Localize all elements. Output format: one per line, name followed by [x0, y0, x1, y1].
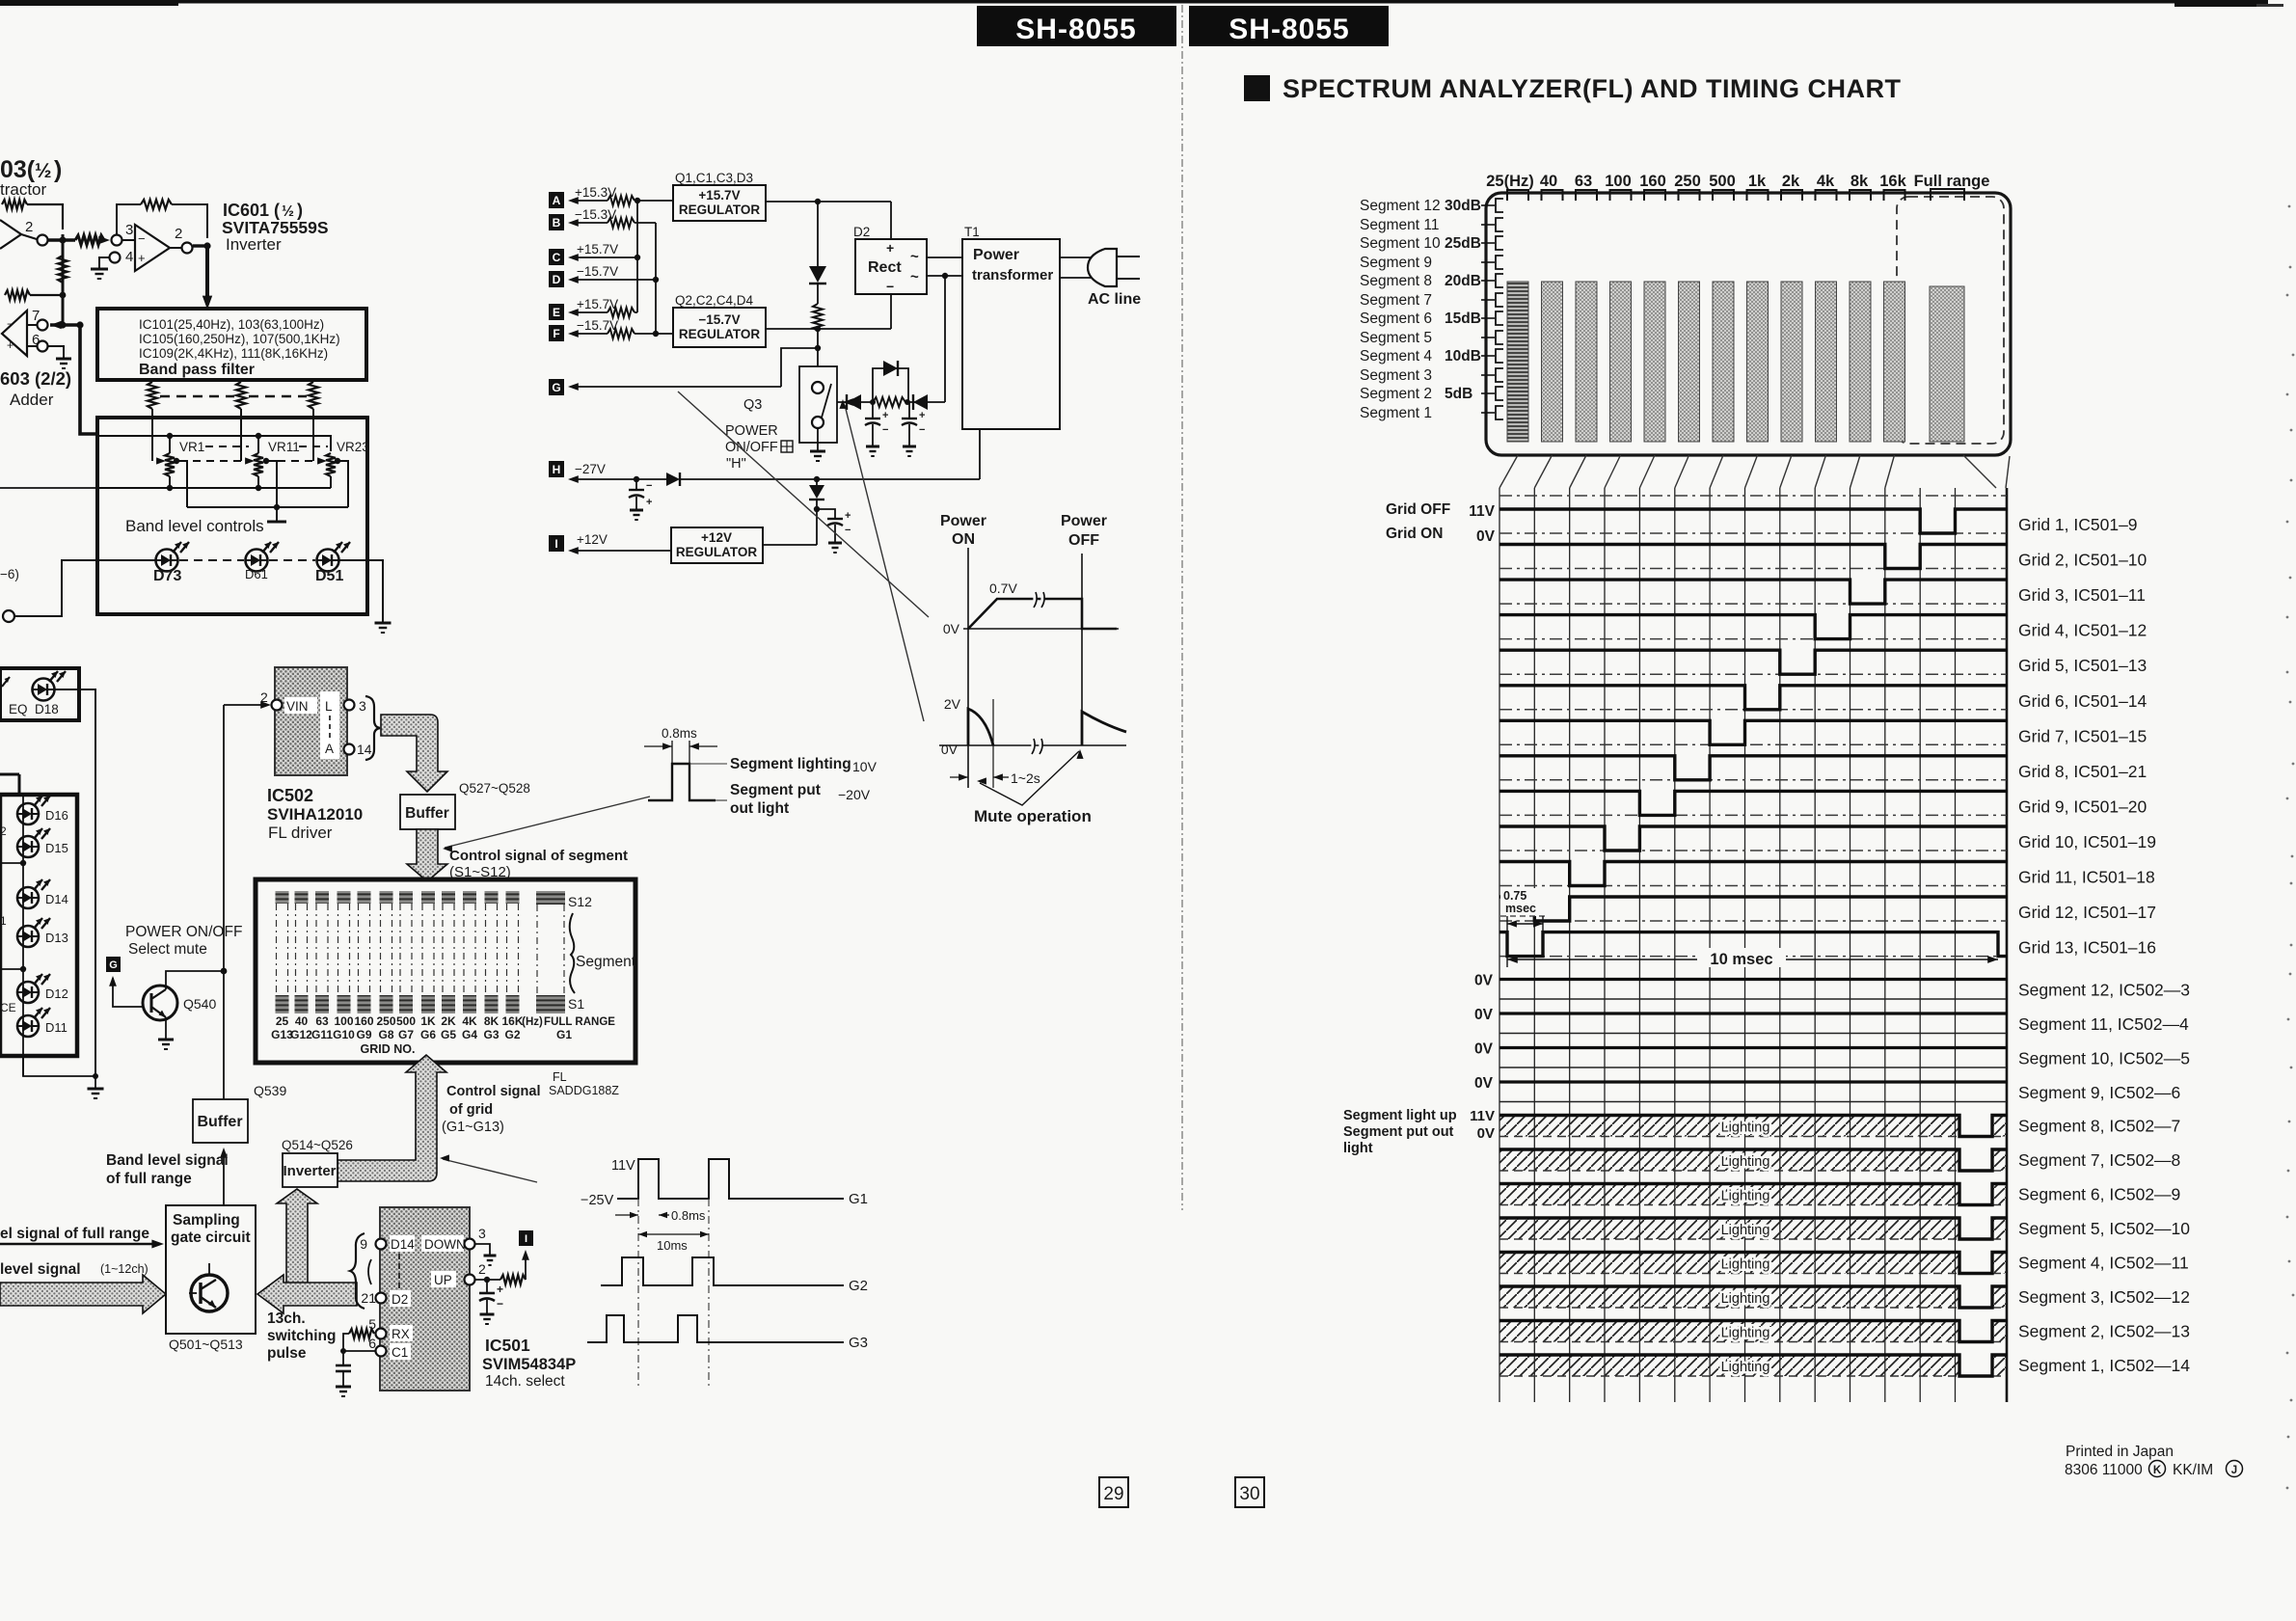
svg-text:−: − — [7, 317, 14, 331]
svg-text:Segment 9, IC502—6: Segment 9, IC502—6 — [2018, 1083, 2180, 1102]
svg-text:Q539: Q539 — [254, 1083, 286, 1098]
svg-text:2: 2 — [0, 824, 7, 838]
switch Q3 — [799, 366, 837, 443]
terminal I — [549, 535, 564, 552]
scan artifacts right edge — [2288, 205, 2291, 208]
svg-text:Segment 7, IC502—8: Segment 7, IC502—8 — [2018, 1150, 2180, 1170]
svg-text:SVIHA12010: SVIHA12010 — [267, 805, 363, 824]
pin 6 C1 — [376, 1346, 387, 1357]
waveform grid 3 (IC501-11) — [1499, 580, 2007, 604]
svg-text:VR23: VR23 — [337, 440, 369, 454]
svg-text:~: ~ — [910, 269, 919, 285]
svg-text:Segment lighting: Segment lighting — [730, 756, 851, 772]
terminal A — [549, 192, 564, 208]
grid 5 0V dash-dot line — [1499, 673, 2007, 675]
svg-text:): ) — [54, 156, 62, 183]
svg-text:+: + — [138, 251, 146, 265]
big band arrow level signal into sampling gate — [0, 1275, 166, 1313]
grid 7 0V dash-dot line — [1499, 743, 2007, 745]
feedback loop resistor IC601 — [117, 204, 141, 234]
svg-text:40: 40 — [1540, 173, 1557, 190]
svg-text:Lighting: Lighting — [1721, 1360, 1770, 1375]
svg-text:Segment 8, IC502—7: Segment 8, IC502—7 — [2018, 1117, 2180, 1136]
svg-text:G1: G1 — [556, 1028, 572, 1041]
svg-text:SADDG188Z: SADDG188Z — [549, 1084, 619, 1097]
svg-text:AC line: AC line — [1088, 291, 1141, 308]
svg-text:Segment 6: Segment 6 — [1360, 311, 1432, 327]
svg-text:G12: G12 — [290, 1028, 312, 1041]
brace pins 9-21 — [350, 1233, 365, 1309]
up arrow sampling to inverter — [277, 1189, 317, 1284]
grid 12 0V dash-dot line — [1499, 920, 2007, 922]
svg-text:L: L — [325, 699, 333, 714]
electrode staples above panel — [1507, 190, 1528, 201]
pin 9 D14 — [376, 1239, 387, 1250]
svg-text:): ) — [297, 201, 303, 220]
resistor UP to I terminal — [500, 1275, 526, 1284]
svg-text:0.8ms: 0.8ms — [662, 726, 697, 741]
terminal H — [549, 461, 564, 477]
svg-text:14: 14 — [357, 742, 372, 757]
svg-text:Segment 1: Segment 1 — [1360, 405, 1432, 421]
svg-text:G6: G6 — [420, 1028, 436, 1041]
page number 29 — [1099, 1477, 1128, 1507]
waveform segment 10 (IC502-5) flat 0V — [1499, 1046, 2007, 1049]
band level controls box — [97, 418, 367, 614]
svg-text:250: 250 — [1674, 173, 1701, 190]
svg-text:I: I — [525, 1233, 527, 1245]
svg-text:25(Hz): 25(Hz) — [1486, 173, 1534, 190]
full-range dashed tube outline — [1897, 197, 2004, 444]
svg-text:(1~12ch): (1~12ch) — [100, 1262, 149, 1276]
svg-text:ON: ON — [952, 531, 975, 548]
svg-text:−15.7V: −15.7V — [577, 264, 618, 279]
svg-text:4k: 4k — [1817, 173, 1835, 190]
grid 10 0V dash-dot line — [1499, 850, 2007, 851]
svg-text:Grid 4, IC501–12: Grid 4, IC501–12 — [2018, 621, 2147, 640]
svg-text:30dB: 30dB — [1445, 198, 1481, 214]
svg-text:Grid 1, IC501–9: Grid 1, IC501–9 — [2018, 515, 2138, 534]
svg-text:Power: Power — [1061, 513, 1107, 529]
svg-text:Segment 7: Segment 7 — [1360, 292, 1432, 309]
rect to transformer wires — [927, 257, 962, 258]
capacitor on C1 — [342, 1351, 344, 1365]
svg-text:transformer: transformer — [972, 267, 1053, 284]
waveform grid 5 (IC501-13) — [1499, 650, 2007, 674]
svg-text:Grid 9, IC501–20: Grid 9, IC501–20 — [2018, 797, 2147, 816]
svg-text:−27V: −27V — [575, 462, 606, 476]
svg-text:10V: 10V — [852, 759, 878, 774]
G2 waveform — [601, 1257, 844, 1285]
svg-text:6: 6 — [368, 1336, 376, 1351]
thick wire pin7 down to band level controls — [80, 325, 97, 434]
waveform grid 11 (IC501-18) — [1499, 862, 2007, 886]
full range bar — [1930, 286, 1964, 442]
band arrow inverter to FL box — [338, 1055, 446, 1181]
svg-text:2V: 2V — [944, 696, 961, 712]
FL tube segment columns — [276, 891, 289, 904]
spectrum bars (12 bands) — [1507, 282, 1528, 442]
svg-text:Segment light up: Segment light up — [1343, 1108, 1457, 1123]
wires regulators to rect — [766, 201, 891, 203]
svg-text:D16: D16 — [45, 808, 68, 823]
grid 11 0V dash-dot line — [1499, 885, 2007, 887]
svg-text:160: 160 — [1639, 173, 1666, 190]
svg-text:G5: G5 — [441, 1028, 456, 1041]
grid 13 0V dash-dot line — [1499, 956, 2007, 958]
svg-text:−: − — [138, 231, 146, 246]
10 msec dimension — [1506, 953, 1508, 967]
adder left resistor — [5, 290, 30, 300]
svg-text:+12V: +12V — [701, 530, 732, 545]
band pass filter box — [97, 309, 366, 380]
svg-text:SH-8055: SH-8055 — [1229, 14, 1349, 45]
three coupling resistors — [148, 382, 157, 409]
waveform grid 2 (IC501-10) — [1499, 545, 2007, 569]
pin 3 — [344, 700, 355, 711]
svg-text:−20V: −20V — [838, 787, 871, 802]
svg-text:+: + — [845, 510, 851, 522]
timing chart column grid — [1499, 488, 1500, 1402]
svg-text:4K: 4K — [462, 1014, 477, 1028]
resistor to inverter input — [75, 235, 104, 245]
waveform grid 12 (IC501-17) — [1499, 897, 2007, 921]
pin 2 UP — [431, 1271, 456, 1287]
page fold line — [1181, 5, 1183, 1210]
transistor Q540 — [143, 986, 177, 1020]
svg-text:Lighting: Lighting — [1721, 1121, 1770, 1136]
svg-text:Segment 9: Segment 9 — [1360, 255, 1432, 271]
svg-text:Segment 5, IC502—10: Segment 5, IC502—10 — [2018, 1219, 2190, 1238]
0.75 msec annotation — [1500, 888, 1546, 916]
svg-text:C1: C1 — [392, 1345, 408, 1360]
svg-text:Grid 6, IC501–14: Grid 6, IC501–14 — [2018, 691, 2147, 711]
capacitor on UP — [486, 1280, 488, 1293]
terminal G — [549, 379, 564, 395]
svg-text:Lighting: Lighting — [1721, 1291, 1770, 1307]
top rail — [97, 436, 331, 451]
grid 3 0V dash-dot line — [1499, 603, 2007, 605]
LED D51 — [317, 550, 339, 572]
svg-text:UP: UP — [434, 1273, 452, 1287]
svg-text:A: A — [325, 742, 334, 756]
svg-text:"H": "H" — [726, 456, 746, 472]
svg-text:2K: 2K — [441, 1014, 456, 1028]
waveform segment 9 (IC502-6) flat 0V — [1499, 1080, 2007, 1083]
svg-text:msec: msec — [1505, 902, 1536, 915]
L..A pin strip — [320, 691, 339, 759]
grid 6 0V dash-dot line — [1499, 709, 2007, 711]
svg-text:Lighting: Lighting — [1721, 1189, 1770, 1204]
svg-text:0V: 0V — [941, 742, 959, 757]
svg-text:G1: G1 — [849, 1191, 868, 1207]
svg-text:Inverter: Inverter — [283, 1163, 336, 1179]
grid 4 0V dash-dot line — [1499, 638, 2007, 640]
LED column box D16-D11 — [0, 795, 77, 1056]
svg-text:Band level controls: Band level controls — [125, 517, 264, 535]
svg-text:+15.7V: +15.7V — [577, 297, 618, 311]
waveform grid 8 (IC501-21) — [1499, 756, 2007, 780]
grid 1 0V dash-dot line — [1499, 532, 2007, 534]
svg-text:11V: 11V — [1469, 503, 1495, 520]
svg-text:−15.7V: −15.7V — [577, 318, 618, 333]
LED row exit to ground right — [339, 560, 383, 622]
svg-text:of full range: of full range — [106, 1171, 192, 1187]
svg-text:SH-8055: SH-8055 — [1015, 14, 1136, 45]
svg-text:GRID NO.: GRID NO. — [361, 1042, 416, 1056]
LED D16 — [17, 803, 39, 824]
mid chain: diode — [817, 202, 819, 266]
svg-text:8K: 8K — [484, 1014, 500, 1028]
svg-text:3: 3 — [125, 222, 133, 238]
IC502 box — [275, 667, 347, 775]
svg-text:Mute operation: Mute operation — [974, 807, 1092, 825]
bus wire buffer to IC502 VIN — [223, 705, 225, 1099]
svg-text:VR1: VR1 — [179, 440, 204, 454]
svg-text:Lighting: Lighting — [1721, 1326, 1770, 1341]
svg-text:(Hz): (Hz) — [522, 1016, 543, 1028]
wiper outputs — [174, 458, 179, 464]
LED D15 — [17, 836, 39, 857]
svg-text:Band level signal: Band level signal — [106, 1152, 229, 1169]
svg-text:SPECTRUM ANALYZER(FL) AND TIMI: SPECTRUM ANALYZER(FL) AND TIMING CHART — [1283, 74, 1901, 103]
svg-text:100: 100 — [334, 1014, 353, 1028]
svg-text:21: 21 — [361, 1290, 376, 1306]
svg-text:Printed in Japan: Printed in Japan — [2066, 1444, 2174, 1460]
svg-text:REGULATOR: REGULATOR — [676, 545, 758, 559]
svg-text:25: 25 — [276, 1014, 289, 1028]
op-amp IC603 adder — [2, 311, 27, 356]
alignment dashed verticals — [637, 1199, 639, 1389]
svg-text:−15.7V: −15.7V — [698, 312, 740, 327]
svg-text:25dB: 25dB — [1445, 235, 1481, 252]
svg-text:Segment put: Segment put — [730, 782, 821, 798]
EQ D18 box — [0, 668, 79, 720]
svg-text:Segment 11, IC502—4: Segment 11, IC502—4 — [2018, 1014, 2189, 1034]
svg-text:−: − — [886, 279, 894, 294]
svg-text:+: + — [919, 410, 925, 421]
svg-text:VIN: VIN — [286, 699, 309, 714]
G3 waveform — [587, 1315, 844, 1342]
diode on H line — [666, 473, 680, 486]
svg-text:250: 250 — [376, 1014, 395, 1028]
waveform segment 8 (IC502-7) lighting — [1499, 1116, 1959, 1137]
svg-text:−6): −6) — [0, 567, 19, 581]
svg-text:2: 2 — [478, 1261, 486, 1277]
svg-text:G7: G7 — [398, 1028, 414, 1041]
waveform grid 4 (IC501-12) — [1499, 615, 2007, 639]
svg-text:2: 2 — [25, 219, 33, 235]
partial LED arrows top-left of EQ box — [2, 677, 10, 687]
svg-text:16k: 16k — [1879, 173, 1906, 190]
svg-text:S12: S12 — [568, 894, 592, 909]
svg-text:G2: G2 — [849, 1278, 868, 1294]
svg-text:1k: 1k — [1748, 173, 1767, 190]
waveform segment 11 (IC502-4) flat 0V — [1499, 1012, 2007, 1014]
potentiometer VR11 — [254, 453, 263, 476]
svg-text:Full range: Full range — [1914, 173, 1990, 190]
svg-text:0V: 0V — [1477, 1125, 1495, 1142]
grid 8 0V dash-dot line — [1499, 779, 2007, 781]
svg-text:−: − — [919, 424, 925, 436]
terminal E — [549, 304, 564, 320]
svg-text:+: + — [497, 1283, 503, 1296]
svg-text:Buffer: Buffer — [197, 1114, 242, 1130]
buffer box Q539 — [193, 1099, 248, 1143]
svg-text:Segment 2: Segment 2 — [1360, 386, 1432, 402]
svg-text:G11: G11 — [311, 1028, 333, 1041]
LED D73 — [156, 550, 178, 572]
svg-text:30: 30 — [1239, 1484, 1259, 1504]
svg-text:E: E — [553, 306, 560, 319]
svg-text:D15: D15 — [45, 841, 68, 855]
svg-text:63: 63 — [1575, 173, 1592, 190]
svg-text:Grid 11, IC501–18: Grid 11, IC501–18 — [2018, 868, 2155, 887]
waveform segment 12 (IC502-3) flat 0V — [1499, 978, 2007, 981]
svg-text:IC501: IC501 — [485, 1336, 530, 1355]
svg-text:G3: G3 — [483, 1028, 499, 1041]
LED D61 — [246, 550, 268, 572]
pot bottoms rail — [97, 487, 331, 489]
transistor inside sampling gate — [191, 1275, 228, 1311]
svg-text:Grid 8, IC501–21: Grid 8, IC501–21 — [2018, 762, 2147, 781]
svg-text:16K: 16K — [501, 1014, 523, 1028]
svg-text:1K: 1K — [420, 1014, 436, 1028]
svg-text:11V: 11V — [611, 1158, 635, 1174]
svg-text:Segment 4: Segment 4 — [1360, 348, 1432, 365]
svg-text:Segment 5: Segment 5 — [1360, 330, 1432, 346]
svg-text:IC109(2K,4KHz), 111(8K,16KHz): IC109(2K,4KHz), 111(8K,16KHz) — [139, 346, 328, 361]
svg-text:K: K — [2153, 1465, 2162, 1476]
svg-text:IC502: IC502 — [267, 786, 313, 805]
svg-text:3: 3 — [359, 698, 366, 714]
svg-text:S1: S1 — [568, 996, 584, 1012]
terminal F — [549, 325, 564, 341]
svg-text:tractor: tractor — [0, 180, 47, 199]
svg-text:Band pass filter: Band pass filter — [139, 362, 255, 378]
+12V regulator — [671, 527, 763, 563]
FL display panel outline — [1486, 193, 2011, 455]
svg-text:Grid 13, IC501–16: Grid 13, IC501–16 — [2018, 938, 2156, 958]
grid 9 0V dash-dot line — [1499, 814, 2007, 816]
svg-text:Grid 10, IC501–19: Grid 10, IC501–19 — [2018, 832, 2156, 851]
svg-text:FL: FL — [553, 1070, 567, 1084]
svg-text:~: ~ — [910, 249, 919, 265]
svg-text:Control signal of segment: Control signal of segment — [449, 848, 628, 864]
svg-text:B: B — [553, 216, 561, 230]
svg-text:Segment 4, IC502—11: Segment 4, IC502—11 — [2018, 1254, 2189, 1273]
svg-text:light: light — [1343, 1141, 1373, 1156]
svg-text:+15.7V: +15.7V — [698, 188, 740, 203]
left terminal and wire into LED row — [3, 610, 14, 622]
1-2s dimension — [950, 776, 968, 778]
svg-text:Rect: Rect — [868, 259, 902, 276]
svg-text:Grid 12, IC501–17: Grid 12, IC501–17 — [2018, 903, 2156, 922]
feedback resistor subtractor — [2, 200, 27, 209]
svg-text:Buffer: Buffer — [405, 805, 449, 822]
svg-text:160: 160 — [354, 1014, 373, 1028]
svg-text:G: G — [552, 381, 560, 394]
svg-text:Q540: Q540 — [183, 996, 216, 1012]
svg-text:603 (2/2): 603 (2/2) — [0, 368, 71, 389]
svg-text:+: + — [886, 240, 894, 256]
bypass diode above — [873, 368, 908, 402]
waveform grid 9 (IC501-20) — [1499, 791, 2007, 815]
G feed from node — [781, 348, 818, 387]
diode down from H line — [816, 479, 818, 485]
svg-text:15dB: 15dB — [1445, 311, 1481, 327]
svg-text:0V: 0V — [943, 621, 960, 636]
AC plug — [1060, 257, 1091, 258]
svg-text:Segment 3, IC502—12: Segment 3, IC502—12 — [2018, 1287, 2190, 1307]
ground pin6 — [48, 346, 64, 358]
svg-text:J: J — [2231, 1465, 2237, 1476]
svg-text:Lighting: Lighting — [1721, 1257, 1770, 1273]
svg-text:Segment 1, IC502—14: Segment 1, IC502—14 — [2018, 1356, 2190, 1375]
LED D11 — [17, 1015, 39, 1037]
svg-text:½: ½ — [35, 160, 52, 182]
svg-text:IC601 (: IC601 ( — [223, 201, 280, 220]
dashed VR label links — [205, 446, 249, 447]
svg-text:G: G — [109, 959, 118, 971]
svg-text:DOWN: DOWN — [424, 1237, 466, 1252]
svg-text:Segment 3: Segment 3 — [1360, 367, 1432, 384]
op-amp IC603 subtractor (partial) — [0, 220, 21, 249]
svg-text:G4: G4 — [462, 1028, 477, 1041]
svg-text:pulse: pulse — [267, 1345, 307, 1362]
svg-text:0.75: 0.75 — [1503, 889, 1526, 903]
svg-text:F: F — [553, 327, 559, 340]
callout line B (mute/switch) — [845, 405, 924, 721]
svg-text:D: D — [553, 273, 561, 286]
adder input node wiring — [50, 323, 80, 326]
IC501 box — [380, 1207, 470, 1391]
svg-text:+: + — [882, 410, 888, 421]
section heading — [1244, 75, 1270, 101]
svg-text:REGULATOR: REGULATOR — [679, 203, 761, 217]
svg-text:Grid ON: Grid ON — [1386, 526, 1443, 542]
svg-text:D18: D18 — [35, 702, 59, 716]
svg-text:Power: Power — [940, 513, 986, 529]
svg-text:OFF: OFF — [1068, 532, 1099, 549]
svg-text:Segment 10: Segment 10 — [1360, 235, 1441, 252]
svg-text:FULL RANGE: FULL RANGE — [544, 1016, 615, 1028]
svg-text:POWER: POWER — [725, 423, 778, 439]
vertical resistor — [58, 256, 68, 283]
svg-text:10ms: 10ms — [657, 1238, 688, 1253]
svg-text:Adder: Adder — [10, 391, 54, 409]
pin 14 — [344, 744, 355, 755]
svg-text:03(: 03( — [0, 156, 36, 183]
svg-text:4: 4 — [125, 249, 133, 265]
svg-text:−25V: −25V — [581, 1193, 614, 1208]
svg-text:14ch. select: 14ch. select — [485, 1373, 565, 1390]
dashed D14..D2 — [398, 1254, 400, 1292]
svg-text:Segment 12: Segment 12 — [1360, 198, 1441, 214]
callout line to 0.8ms pulse — [445, 797, 650, 848]
title block SH-8055 left — [977, 6, 1176, 46]
svg-text:CE: CE — [0, 1001, 16, 1014]
top border line — [0, 0, 2268, 4]
svg-text:C: C — [553, 251, 561, 264]
bottom wire to ground — [23, 1056, 95, 1076]
svg-text:Q2,C2,C4,D4: Q2,C2,C4,D4 — [675, 293, 754, 308]
junction dots LED chain — [20, 860, 26, 866]
wire D18 to mute bus — [55, 689, 95, 1076]
svg-text:+: + — [646, 497, 652, 508]
svg-text:Q3: Q3 — [743, 397, 762, 413]
buffer box Q527-Q528 — [400, 795, 455, 829]
